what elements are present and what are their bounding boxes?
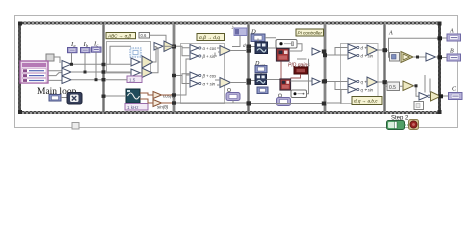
tunnel C q out: [247, 81, 252, 85]
junction A border: [438, 36, 443, 40]
property node D: [277, 94, 291, 106]
tunnel D in: [247, 45, 252, 49]
numeric constant box: [130, 48, 141, 57]
cluster constants: [20, 61, 48, 83]
terminal Ia: [68, 48, 78, 53]
junction C left: [172, 74, 176, 77]
wire Ia down: [71, 53, 73, 65]
wire B out: [442, 57, 447, 59]
svg-text:β + cos: β + cos: [202, 74, 218, 79]
DAQ icon 2: [255, 74, 267, 85]
junction E left: [323, 53, 327, 57]
constant F3: [414, 102, 424, 110]
wire Dout down: [260, 73, 262, 75]
subtract node q: [220, 78, 231, 88]
svg-text:A: A: [388, 31, 393, 37]
sine generator icon: [126, 89, 140, 103]
subtract node alpha: [367, 45, 378, 55]
svg-text:α + cos: α + cos: [203, 46, 218, 51]
tunnel B sin/cos: [172, 93, 176, 96]
terminal D: [251, 34, 265, 42]
multiplier 3: [62, 76, 71, 84]
add node F2: [403, 81, 414, 91]
add node B top: [154, 43, 163, 51]
id tag: [72, 123, 79, 130]
label ABC to alpha beta: [106, 33, 136, 39]
multiply node B1: [142, 56, 153, 68]
terminal Ic: [92, 47, 102, 52]
svg-text:α,β → d,q: α,β → d,q: [199, 35, 220, 41]
constant F2: [387, 82, 400, 91]
multiply node B top: [164, 41, 175, 52]
junction dots stage A: [70, 63, 98, 81]
wire F2 down: [416, 92, 419, 96]
constant label purple: [127, 76, 142, 83]
inner frame stage E: [341, 44, 379, 104]
terminal D out: [255, 66, 267, 73]
label dq to abc: [352, 97, 382, 105]
tunnel C d out: [247, 49, 252, 53]
multiplier 1: [62, 61, 71, 69]
terminal B out: [447, 54, 461, 61]
subtract node B2: [131, 69, 140, 77]
wire F1 to border: [436, 56, 441, 58]
outer frame: [15, 16, 458, 128]
tunnel D2: [322, 80, 327, 84]
frame divider 2: [173, 24, 176, 112]
wire A out: [442, 37, 447, 39]
wires F vertical: [425, 75, 430, 93]
frame divider 5: [383, 24, 386, 112]
wire Ib down: [84, 53, 86, 72]
inner frame stage C: [181, 44, 225, 104]
wires E bottom: [327, 82, 384, 104]
svg-text:q + sin: q + sin: [361, 88, 374, 93]
multiply node B2: [142, 68, 152, 78]
mult d-sin: [348, 52, 359, 59]
wire A: [387, 38, 438, 50]
add node D2: [312, 78, 320, 85]
svg-text:β + sin: β + sin: [202, 54, 216, 59]
wires C top: [176, 46, 246, 56]
wire local var down: [232, 36, 240, 47]
wires C bottom: [176, 74, 246, 85]
add node D1: [312, 48, 320, 55]
red wire gains down: [281, 62, 301, 79]
wire Ic down: [95, 52, 97, 79]
svg-text:1 kHz: 1 kHz: [127, 105, 139, 110]
tunnel D sincos R: [322, 102, 327, 106]
tunnel E alpha: [383, 48, 388, 52]
wire switch-stop: [405, 124, 410, 126]
mult q-sin: [348, 86, 359, 93]
inner tri F1: [403, 54, 410, 60]
property node C: [226, 88, 240, 100]
PID gains box: [294, 67, 308, 74]
multiplier 2: [62, 68, 71, 76]
PID icon 1: [277, 49, 290, 62]
wire D to slider: [258, 38, 276, 42]
tunnel D in 2: [247, 79, 252, 83]
mult q-cos: [348, 78, 359, 85]
svg-text:0.5: 0.5: [389, 85, 396, 91]
add node beta: [367, 77, 378, 87]
wire F1: [413, 56, 426, 58]
main loop terminal: [49, 95, 61, 102]
tunnel E beta: [383, 80, 388, 84]
wire pid2 to add: [291, 80, 313, 82]
mult a-sin: [190, 80, 201, 87]
mult a-cos: [190, 45, 201, 52]
loop corner BR: [438, 110, 442, 114]
stop button: [409, 120, 419, 130]
tunnel C pass: [247, 101, 252, 105]
loop border right edge: [438, 22, 441, 115]
wire pid1 to add: [289, 44, 302, 51]
terminal Ib: [81, 48, 91, 53]
svg-text:α + sin: α + sin: [203, 82, 216, 87]
constant F1: [390, 53, 400, 62]
junction B out: [172, 45, 176, 49]
svg-text:d,q → a,b,c: d,q → a,b,c: [354, 99, 378, 104]
PID icon 2: [280, 79, 291, 90]
junction B border: [438, 55, 443, 59]
wire B out: [163, 45, 175, 47]
while loop border: [20, 23, 440, 113]
unbundle node: [46, 54, 54, 61]
gain slider 2: [291, 90, 307, 98]
wire tunnel to icon1: [251, 46, 255, 48]
label PI controller: [296, 29, 324, 36]
wires C sincos pass: [176, 59, 247, 103]
wire局 via box: [232, 101, 234, 104]
tunnel A1: [102, 63, 106, 66]
loop border left edge: [18, 22, 21, 115]
wire to sine icon: [105, 95, 126, 97]
wire icon1 to pid1: [268, 47, 277, 49]
tunnel D sincos L: [247, 102, 252, 106]
wire to add F1: [389, 50, 390, 57]
junction C border: [439, 94, 444, 98]
loop corner TR: [438, 22, 442, 26]
abort icon: [67, 93, 82, 105]
wires E top: [327, 48, 384, 56]
round node F1: [426, 53, 436, 61]
wire tunnel2 to icon2: [251, 80, 255, 82]
wires cluster to multipliers: [48, 71, 62, 81]
terminal small blue: [257, 87, 268, 94]
label 1kHz purple: [125, 104, 148, 111]
subtract node B1: [131, 58, 140, 66]
wire from unbundle: [54, 57, 60, 63]
stage B wires: [105, 46, 164, 79]
tunnel A2: [102, 70, 106, 73]
svg-text:PI controller: PI controller: [298, 31, 323, 36]
add node F3: [431, 92, 441, 102]
wire mult2 out: [71, 71, 103, 73]
wires sine icon: [140, 93, 173, 103]
cos node: [153, 92, 162, 99]
label alpha beta to dq: [197, 34, 225, 42]
wire slider2 up: [297, 59, 309, 94]
wires F2: [385, 86, 417, 93]
wire mult1 out: [71, 63, 103, 65]
wires D bottom pass: [251, 103, 322, 105]
setpoint slider: [276, 40, 297, 49]
DAQ icon 1: [255, 42, 268, 54]
wire mult3 out: [71, 79, 103, 81]
inner frame stage B: [107, 42, 151, 74]
add node F1: [401, 52, 413, 63]
wire to stop icon: [61, 97, 67, 99]
terminal A out: [447, 34, 461, 41]
svg-text:ABC → α,β: ABC → α,β: [107, 34, 131, 39]
dot F2: [415, 84, 418, 87]
mult b-cos: [190, 72, 201, 79]
wire icon2 right: [267, 79, 281, 81]
svg-text:1.5: 1.5: [129, 77, 136, 82]
step switch: [387, 121, 405, 130]
frame divider 1: [102, 24, 105, 112]
junction E left 2: [323, 79, 327, 83]
sin node: [153, 100, 162, 107]
tunnel D1: [322, 50, 327, 54]
svg-text:0.6: 0.6: [141, 33, 147, 38]
mult d-cos: [348, 44, 359, 51]
round node F3: [419, 93, 430, 101]
terminal C out: [449, 93, 463, 100]
constant 2/3: [139, 33, 150, 39]
frame divider 4: [324, 24, 327, 112]
frame divider 3: [247, 24, 250, 112]
loop corner TL: [18, 22, 22, 26]
wire C out: [443, 95, 449, 97]
loop corner BL: [18, 110, 22, 114]
dot F1: [416, 56, 419, 59]
tunnel A3: [102, 78, 106, 81]
svg-text:sin(θ): sin(θ): [157, 105, 169, 110]
local variable box: [234, 28, 247, 36]
mult b-sin: [190, 53, 201, 60]
add node d: [220, 46, 231, 56]
